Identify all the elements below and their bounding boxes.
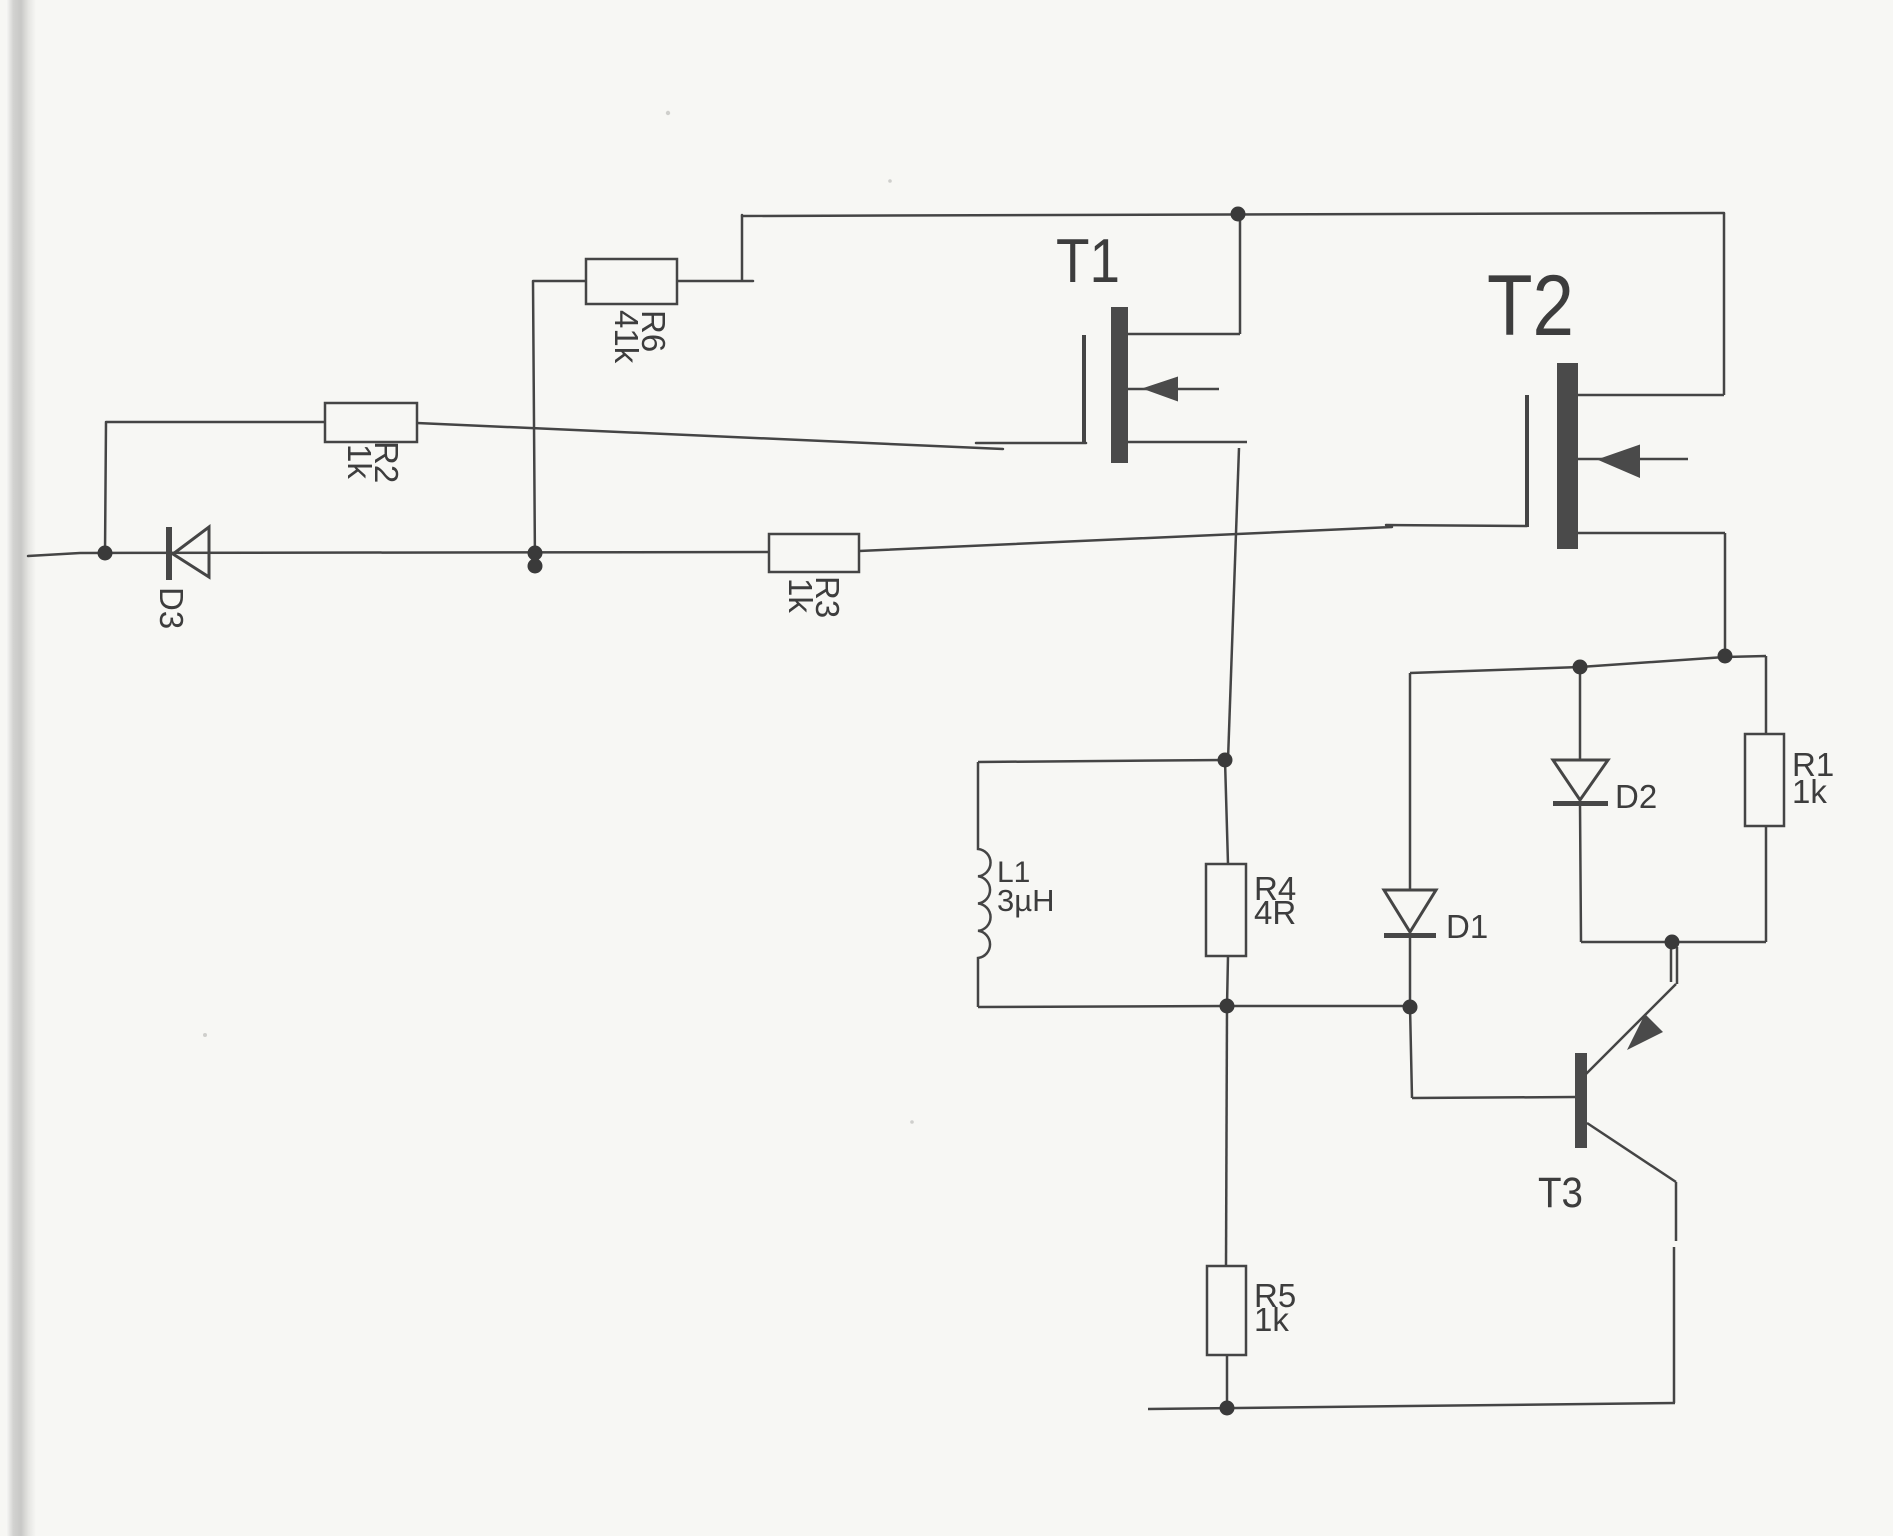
node T2 source	[1718, 649, 1733, 664]
node R2/R6 junction lower	[528, 559, 543, 574]
transistor T3	[1538, 944, 1677, 1403]
svg-text:4R: 4R	[1254, 894, 1296, 931]
resistor R5	[1207, 1266, 1296, 1408]
wire T1 source long vertical	[1228, 448, 1239, 760]
resistor R2	[325, 403, 417, 483]
wire L1 top	[978, 760, 1225, 762]
resistor R1	[1745, 734, 1834, 826]
wire R2 left branch	[105, 422, 325, 554]
wire sub-circuit top line	[1410, 656, 1766, 734]
transistor T2	[1487, 213, 1725, 656]
svg-text:1k: 1k	[1792, 773, 1827, 810]
inductor L1	[978, 762, 1055, 1007]
svg-text:1k: 1k	[782, 578, 819, 613]
node top rail T1 drain	[1231, 207, 1246, 222]
node D2 top	[1573, 660, 1588, 675]
wire D1 to T3 base	[1410, 1006, 1575, 1098]
wire main horizontal input line	[28, 552, 769, 556]
resistor R4	[1206, 760, 1296, 1006]
svg-text:41k: 41k	[608, 310, 645, 364]
svg-text:1k: 1k	[1254, 1301, 1289, 1338]
diode D1	[1384, 673, 1488, 1006]
svg-text:D1: D1	[1446, 908, 1488, 945]
wire R6 right riser	[677, 215, 753, 281]
diode D2	[1553, 667, 1657, 942]
wire R2 to T1 gate diagonal	[417, 423, 1003, 449]
wire R1 bottom to D2 bottom	[1581, 826, 1766, 942]
wire top supply rail	[742, 213, 1724, 216]
wire center vertical R4 to R5	[1226, 1006, 1227, 1266]
node D2 bottom / T3 emitter	[1665, 935, 1680, 950]
resistor R3	[769, 534, 859, 618]
resistor R6	[586, 259, 677, 364]
svg-text:T1: T1	[1056, 227, 1120, 296]
svg-text:T2: T2	[1487, 258, 1574, 354]
wire bottom rail	[1148, 1403, 1675, 1409]
node R5 bottom	[1220, 1401, 1235, 1416]
wire L1 bottom	[978, 1006, 1411, 1007]
diode D3	[153, 527, 209, 629]
transistor T1	[1056, 216, 1247, 463]
wire R3 to T2 gate diagonal	[859, 525, 1527, 551]
node L1 bottom / R4 / R5	[1220, 999, 1235, 1014]
svg-text:3µH: 3µH	[997, 883, 1055, 918]
node R2/R6 junction upper	[528, 546, 543, 561]
node L1 top / R4 / T1 source	[1218, 753, 1233, 768]
svg-text:D2: D2	[1615, 778, 1657, 815]
node input left	[98, 546, 113, 561]
svg-text:T3: T3	[1538, 1169, 1583, 1217]
wire T1 gate horizontal	[976, 442, 1086, 445]
node D1 bottom	[1403, 1000, 1418, 1015]
svg-text:1k: 1k	[341, 444, 378, 479]
wire R6 left + vertical to main node	[533, 281, 586, 566]
svg-text:D3: D3	[153, 587, 190, 629]
